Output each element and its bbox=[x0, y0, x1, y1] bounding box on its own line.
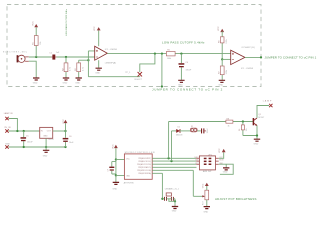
supply VCC arrow op-amp IC1A bbox=[94, 26, 101, 46]
wire fuse to C8 bbox=[197, 130, 201, 132]
wire mcu gnd pin bbox=[116, 175, 125, 182]
ground C4 bbox=[178, 80, 185, 86]
svg-text:IC1 - LM358: IC1 - LM358 bbox=[241, 68, 254, 70]
wire diode row riser bbox=[171, 131, 173, 161]
svg-text:VCC: VCC bbox=[94, 26, 96, 31]
capacitor C6 output bbox=[63, 131, 75, 147]
wire mcu pin4 stub bbox=[152, 166, 196, 168]
op-amp IC1B LM358 bbox=[231, 46, 256, 70]
svg-text:JUMPER TO CONNECT TO uC PIN 2: JUMPER TO CONNECT TO uC PIN 2 bbox=[152, 87, 223, 91]
svg-text:PB4(ADC2/OC1B): PB4(ADC2/OC1B) bbox=[137, 163, 151, 166]
svg-text:C7: C7 bbox=[107, 169, 109, 171]
annotation high pass cutoff bbox=[65, 9, 68, 36]
supply VCC arrow regulator output bbox=[63, 119, 67, 131]
annotation low pass cutoff bbox=[162, 41, 205, 45]
svg-text:VCC: VCC bbox=[126, 158, 130, 160]
wire lamp row riser bbox=[168, 122, 170, 159]
ground transistor bbox=[254, 139, 261, 145]
wire mcu pin2 to isp bbox=[152, 160, 196, 162]
capacitor C7 bypass bbox=[107, 162, 116, 174]
wire opamp1 output bbox=[107, 53, 230, 55]
svg-text:GND: GND bbox=[33, 82, 38, 84]
svg-text:GND: GND bbox=[223, 172, 228, 174]
svg-text:10k: 10k bbox=[40, 42, 42, 45]
svg-text:10k: 10k bbox=[246, 128, 248, 131]
svg-text:100nF: 100nF bbox=[207, 127, 209, 133]
svg-text:LAMP IN: LAMP IN bbox=[4, 112, 13, 115]
svg-text:GND: GND bbox=[254, 144, 259, 146]
svg-text:GND: GND bbox=[113, 188, 118, 190]
svg-text:CERAMIC_XL_1: CERAMIC_XL_1 bbox=[165, 188, 179, 191]
wire mcu left riser bbox=[115, 160, 117, 176]
wire mic negative pin to ground bbox=[29, 61, 36, 77]
svg-text:100uF: 100uF bbox=[27, 141, 33, 143]
ground resonator bbox=[172, 207, 179, 213]
voltage regulator IC4 78L05 bbox=[40, 127, 55, 147]
svg-text:PB0(MOSI/SDA): PB0(MOSI/SDA) bbox=[138, 172, 151, 175]
resistor R6 divider upper bbox=[219, 31, 229, 59]
node regulator ground bbox=[45, 146, 47, 148]
ground R2 bbox=[63, 78, 70, 84]
wire mcu pin5 to pot wiper bbox=[152, 170, 202, 196]
net flag LAMP bbox=[263, 99, 273, 107]
wire regulator output bbox=[53, 130, 66, 132]
svg-text:AVR ISP: AVR ISP bbox=[203, 170, 212, 173]
annotation jumper to uC pin 2 bbox=[152, 87, 223, 91]
node C5 ground bbox=[23, 146, 25, 148]
test point TP_1 bbox=[125, 72, 143, 81]
svg-text:IN: IN bbox=[41, 130, 44, 132]
ground isp bbox=[223, 164, 230, 173]
svg-text:GND: GND bbox=[172, 211, 177, 213]
wire diode row start bbox=[172, 130, 177, 132]
op-amp IC1A LM358 bbox=[95, 46, 118, 64]
svg-text:PB2(SCK/ADC1): PB2(SCK/ADC1) bbox=[138, 166, 151, 169]
svg-text:SIG62CT: SIG62CT bbox=[134, 79, 143, 81]
wire mcu pin6 to resonator bbox=[152, 173, 162, 199]
ground potentiometer bbox=[204, 207, 211, 214]
fuse F1 bbox=[190, 126, 197, 132]
potentiometer R10 bbox=[202, 190, 208, 206]
svg-text:LOW PASS CUTOFF 5.4kHz: LOW PASS CUTOFF 5.4kHz bbox=[162, 41, 205, 45]
svg-text:GND: GND bbox=[95, 72, 100, 74]
svg-text:ATTINY85: ATTINY85 bbox=[124, 181, 135, 184]
node output on dashed border bbox=[260, 56, 262, 58]
svg-text:1uF: 1uF bbox=[56, 52, 60, 54]
svg-text:IC1 - LM358: IC1 - LM358 bbox=[105, 49, 118, 51]
resistor R2 bbox=[62, 57, 71, 78]
ground mic bbox=[33, 78, 40, 84]
svg-text:330nF: 330nF bbox=[186, 69, 192, 71]
annotation jumper to uC pin 1 bbox=[265, 56, 317, 60]
svg-text:VCC: VCC bbox=[63, 119, 65, 124]
node R2 tap bbox=[65, 56, 67, 58]
svg-text:R9: R9 bbox=[239, 129, 241, 131]
supply VCC arrow potentiometer bbox=[202, 183, 208, 191]
resonator Q2 ceramic bbox=[162, 188, 179, 202]
node base divider bbox=[242, 120, 244, 122]
node resonator gnd bbox=[174, 200, 176, 202]
svg-text:VCC: VCC bbox=[218, 26, 220, 31]
resistor R3 bbox=[75, 60, 84, 77]
svg-text:TP_1: TP_1 bbox=[125, 72, 131, 74]
svg-text:GND: GND bbox=[178, 85, 183, 87]
svg-text:R5: R5 bbox=[167, 49, 170, 51]
svg-text:GND: GND bbox=[204, 211, 209, 213]
resistor R1 bbox=[33, 27, 43, 57]
svg-text:1k: 1k bbox=[228, 126, 230, 128]
wire diode to fuse bbox=[180, 130, 190, 132]
node on dashed border bbox=[161, 85, 163, 87]
ground symbol below rail bbox=[43, 147, 50, 157]
svg-text:MOSI: MOSI bbox=[219, 160, 224, 162]
node mic/R1 junction bbox=[35, 56, 37, 58]
svg-text:POT: POT bbox=[203, 200, 205, 205]
node feedback/R3 junction bbox=[87, 59, 89, 61]
supply VCC arrow isp bbox=[219, 148, 226, 153]
capacitor C8 bbox=[201, 127, 209, 133]
svg-text:PB1(MISO/OC0B): PB1(MISO/OC0B) bbox=[137, 170, 151, 172]
svg-text:GND: GND bbox=[43, 155, 48, 157]
wire noninverting input riser bbox=[88, 51, 94, 77]
wire mcu pin1 to isp bbox=[152, 157, 196, 159]
wire lamp row bbox=[169, 121, 253, 123]
svg-text:1N4148: 1N4148 bbox=[176, 135, 183, 137]
microcontroller U1 ATTINY85 bbox=[124, 152, 156, 184]
wire resonator to ground bbox=[174, 199, 176, 207]
net flag 9V_IN bbox=[4, 127, 10, 133]
wire lamp to collector bbox=[257, 106, 269, 118]
supply VCC arrow microcontroller bbox=[112, 144, 118, 160]
svg-text:GND: GND bbox=[75, 82, 80, 84]
svg-text:RST: RST bbox=[195, 163, 198, 165]
node C4 tap bbox=[180, 52, 182, 54]
svg-text:BC547: BC547 bbox=[258, 117, 264, 119]
svg-text:OPAMP(B): OPAMP(B) bbox=[241, 46, 255, 49]
wire mcu vcc pin bbox=[116, 159, 125, 161]
transistor Q1 bbox=[253, 114, 264, 139]
svg-text:4.7k: 4.7k bbox=[70, 67, 72, 71]
wire feedback loop to test point bbox=[88, 54, 154, 77]
wire mic output to C1 bbox=[29, 56, 51, 58]
microphone MIC1 ELECTRET_MIC bbox=[3, 51, 29, 62]
node resonator left bbox=[161, 198, 163, 200]
wire branch to uC adc bbox=[161, 54, 163, 87]
svg-text:VCC: VCC bbox=[112, 144, 114, 149]
svg-text:LAMP: LAMP bbox=[263, 99, 273, 102]
node divider midpoint bbox=[221, 58, 223, 60]
supply VCC arrow above R1 bbox=[32, 21, 38, 28]
svg-text:VCC: VCC bbox=[202, 183, 204, 188]
svg-text:10uF: 10uF bbox=[69, 142, 74, 144]
capacitor C5 input bulk bbox=[21, 131, 34, 147]
svg-text:9V_IN: 9V_IN bbox=[4, 127, 10, 129]
ground R3 bbox=[75, 78, 82, 84]
frame: amplifier block dashed border bbox=[7, 5, 261, 87]
svg-text:F1: F1 bbox=[191, 126, 193, 128]
svg-text:ADJUST POT BRIGHTNESS: ADJUST POT BRIGHTNESS bbox=[215, 197, 257, 201]
wire R3 to noninverting node bbox=[79, 59, 89, 61]
svg-text:HIGH PASS CUTOFF 64Hz: HIGH PASS CUTOFF 64Hz bbox=[65, 9, 68, 36]
ground op-amp IC1A bbox=[95, 60, 102, 74]
node C6 ground bbox=[64, 146, 66, 148]
node C5 tap bbox=[23, 130, 25, 132]
wire opamp2 output bbox=[245, 56, 261, 58]
node mcu gnd bbox=[115, 174, 117, 176]
node lamp rail junction bbox=[16, 130, 18, 132]
svg-text:D1: D1 bbox=[178, 126, 180, 128]
node feedback tap bbox=[154, 52, 156, 54]
node pin2 branch bbox=[170, 160, 172, 162]
svg-text:VCC: VCC bbox=[32, 21, 34, 26]
wire divider to inverting input bbox=[222, 58, 231, 60]
svg-text:100k: 100k bbox=[167, 58, 171, 60]
wire mcu pin3 to isp bbox=[152, 163, 196, 165]
node emitter / R9 bbox=[256, 134, 258, 136]
net flag GND input bbox=[5, 144, 10, 149]
annotation adjust pot bbox=[215, 197, 257, 201]
wire lamp-in to rail bbox=[9, 119, 18, 132]
svg-text:ELECTRET_MIC: ELECTRET_MIC bbox=[3, 51, 28, 53]
wire isp gnd loop bbox=[219, 164, 234, 174]
svg-text:GND: GND bbox=[43, 136, 48, 138]
node pin1 branch bbox=[167, 157, 169, 159]
connector JP1 AVR ISP bbox=[195, 154, 225, 173]
resistor R7 divider lower bbox=[218, 59, 228, 79]
svg-text:C6: C6 bbox=[69, 136, 72, 138]
svg-text:78L05: 78L05 bbox=[48, 139, 54, 141]
capacitor C4 bbox=[179, 54, 192, 80]
resistor R9 pulldown bbox=[239, 122, 257, 136]
net flag LAMP IN bbox=[4, 112, 13, 120]
node regulator output bbox=[64, 130, 66, 132]
svg-text:C1: C1 bbox=[49, 52, 52, 54]
svg-text:R8: R8 bbox=[227, 118, 229, 120]
supply VCC arrow divider bbox=[218, 26, 224, 32]
ground microcontroller bbox=[113, 182, 120, 190]
diode D1 1N4148 bbox=[176, 126, 183, 136]
svg-text:MICROCONTROLLER: MICROCONTROLLER bbox=[125, 152, 156, 154]
svg-text:VCC: VCC bbox=[219, 148, 221, 153]
resistor R8 base bbox=[226, 118, 233, 127]
svg-text:LM358P(A): LM358P(A) bbox=[105, 62, 116, 65]
svg-text:C5: C5 bbox=[26, 135, 29, 137]
ground R7 bbox=[219, 80, 226, 86]
svg-text:GND: GND bbox=[219, 85, 224, 87]
svg-text:OUT: OUT bbox=[47, 130, 52, 132]
node mcu vcc bbox=[115, 158, 117, 160]
svg-text:4.7k: 4.7k bbox=[82, 67, 84, 71]
svg-text:C4: C4 bbox=[185, 62, 188, 64]
wire input rail bbox=[9, 130, 40, 132]
svg-text:JUMPER TO CONNECT TO uC PIN 1: JUMPER TO CONNECT TO uC PIN 1 bbox=[265, 56, 317, 60]
svg-text:Q1: Q1 bbox=[258, 114, 261, 116]
svg-text:GND: GND bbox=[63, 82, 68, 84]
svg-text:PB5(ADC0/RST): PB5(ADC0/RST) bbox=[138, 157, 151, 160]
capacitor C1 coupling 1uF bbox=[49, 52, 60, 60]
svg-text:100k: 100k bbox=[226, 39, 228, 43]
wire ground rail bbox=[9, 146, 66, 148]
svg-text:100k: 100k bbox=[226, 70, 228, 74]
resistor R5 low pass bbox=[166, 49, 175, 59]
wire isp vcc bbox=[219, 152, 224, 158]
node adc branch tap bbox=[161, 52, 163, 54]
wire C1 to opamp inverting input bbox=[57, 56, 95, 58]
svg-text:PB3(ADC3/CLK): PB3(ADC3/CLK) bbox=[138, 160, 151, 163]
svg-text:GND: GND bbox=[126, 176, 131, 178]
